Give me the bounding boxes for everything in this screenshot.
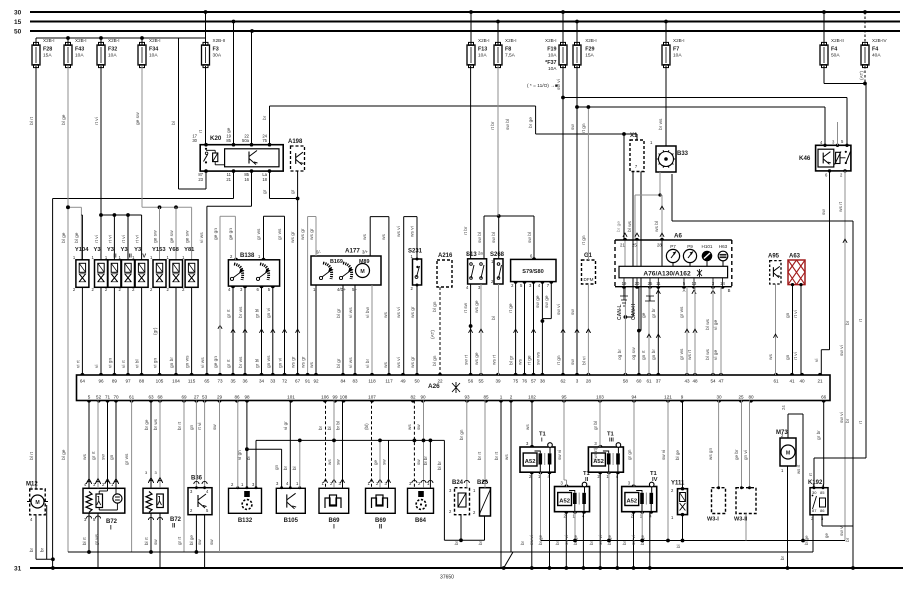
svg-text:49: 49	[400, 379, 406, 384]
svg-text:ws ge: ws ge	[475, 352, 480, 365]
svg-text:II: II	[379, 524, 383, 530]
svg-text:A198: A198	[288, 139, 303, 145]
svg-text:gn rt: gn rt	[641, 350, 647, 360]
svg-text:br: br	[780, 555, 785, 560]
svg-text:br ge: br ge	[616, 221, 622, 232]
svg-text:br: br	[40, 547, 45, 552]
svg-text:29: 29	[217, 395, 223, 400]
svg-text:rt vi: rt vi	[197, 423, 202, 430]
svg-text:H101: H101	[702, 244, 713, 249]
svg-text:20: 20	[635, 281, 640, 286]
svg-text:36: 36	[242, 379, 248, 384]
svg-text:sw: sw	[209, 539, 214, 545]
svg-text:23: 23	[198, 177, 203, 182]
svg-text:ws rt: ws rt	[687, 349, 693, 360]
svg-text:sw: sw	[822, 209, 827, 215]
svg-text:27: 27	[194, 395, 200, 400]
svg-text:F34: F34	[149, 47, 158, 53]
svg-text:68: 68	[157, 395, 163, 400]
svg-text:*F37: *F37	[545, 60, 556, 66]
svg-text:br: br	[520, 541, 525, 545]
svg-text:X2B-I: X2B-I	[505, 38, 517, 43]
svg-text:A26: A26	[428, 383, 440, 390]
svg-text:62: 62	[560, 379, 566, 384]
svg-text:ws gr: ws gr	[290, 231, 296, 243]
svg-text:66: 66	[821, 395, 827, 400]
svg-text:og br: og br	[617, 349, 623, 360]
svg-text:bl gr: bl gr	[336, 358, 342, 368]
svg-text:ws ge: ws ge	[475, 300, 480, 313]
svg-text:48: 48	[692, 379, 698, 384]
svg-text:ws: ws	[310, 362, 315, 368]
svg-text:bl ws: bl ws	[705, 318, 711, 330]
svg-text:gn: gn	[189, 424, 194, 430]
svg-text:F4: F4	[872, 47, 878, 53]
svg-text:(AT): (AT)	[859, 71, 865, 80]
svg-text:117: 117	[385, 379, 393, 384]
svg-text:ge sw: ge sw	[186, 230, 191, 243]
svg-text:rt ge: rt ge	[508, 303, 514, 313]
svg-text:60: 60	[636, 379, 642, 384]
svg-text:4/D+: 4/D+	[337, 287, 347, 292]
svg-text:10A: 10A	[478, 53, 487, 59]
svg-text:sw vi: sw vi	[839, 345, 845, 356]
svg-text:ws: ws	[363, 234, 368, 240]
svg-text:43: 43	[684, 379, 690, 384]
svg-text:K46: K46	[799, 155, 811, 162]
svg-text:50: 50	[14, 29, 22, 36]
svg-text:vi rt: vi rt	[75, 360, 81, 368]
svg-text:bl gr: bl gr	[509, 355, 515, 365]
svg-text:53: 53	[202, 395, 208, 400]
svg-text:ws gr: ws gr	[410, 306, 416, 318]
svg-text:gr rt: gr rt	[177, 536, 182, 545]
svg-text:ws vi: ws vi	[410, 226, 416, 237]
svg-text:58: 58	[623, 379, 629, 384]
svg-text:bl ge: bl ge	[61, 114, 67, 125]
svg-text:93: 93	[464, 395, 470, 400]
svg-text:25: 25	[632, 243, 637, 248]
svg-text:sw vi: sw vi	[529, 535, 534, 545]
svg-text:IV: IV	[141, 254, 147, 260]
svg-text:gn: gn	[274, 464, 279, 470]
svg-text:ws: ws	[519, 359, 524, 365]
svg-text:sw vi: sw vi	[598, 535, 603, 545]
svg-text:P9: P9	[687, 244, 693, 249]
svg-text:br: br	[622, 541, 627, 545]
svg-text:bl rt: bl rt	[82, 537, 87, 545]
svg-text:gr br: gr br	[651, 308, 657, 318]
svg-text:ge: ge	[824, 533, 829, 538]
svg-text:sw vi: sw vi	[556, 304, 562, 315]
svg-text:102: 102	[528, 395, 536, 400]
svg-text:vi ws: vi ws	[348, 357, 354, 368]
svg-text:gn vi: gn vi	[278, 358, 284, 368]
svg-text:ge sw: ge sw	[136, 112, 141, 125]
svg-text:F7: F7	[673, 47, 679, 53]
svg-text:bl: bl	[292, 466, 297, 470]
svg-text:M89: M89	[359, 259, 370, 265]
svg-text:ws: ws	[83, 454, 88, 460]
svg-text:X2B-I: X2B-I	[75, 38, 87, 43]
svg-text:ws: ws	[407, 424, 412, 430]
svg-text:13: 13	[692, 281, 697, 286]
svg-text:18: 18	[262, 177, 267, 182]
svg-text:vi gn: vi gn	[237, 450, 242, 460]
svg-text:CAN-L: CAN-L	[617, 304, 623, 320]
svg-text:br ws: br ws	[658, 118, 664, 130]
svg-text:ws: ws	[384, 312, 389, 318]
svg-text:bl ge: bl ge	[61, 449, 67, 460]
svg-text:br: br	[845, 418, 851, 423]
svg-text:br gn: br gn	[459, 429, 464, 440]
svg-text:vi bw: vi bw	[365, 307, 371, 318]
svg-text:rt sw: rt sw	[463, 302, 469, 313]
svg-text:30A: 30A	[213, 53, 222, 59]
svg-text:gr: gr	[290, 189, 296, 194]
svg-text:CAN-H: CAN-H	[631, 304, 637, 320]
svg-text:br: br	[318, 425, 323, 430]
svg-text:F8: F8	[505, 47, 511, 53]
svg-text:br: br	[262, 115, 268, 120]
svg-text:br: br	[845, 320, 851, 325]
svg-text:gr br: gr br	[816, 430, 822, 440]
svg-text:97: 97	[125, 379, 131, 384]
svg-text:sw ws: sw ws	[536, 351, 541, 365]
svg-text:gn vi: gn vi	[743, 450, 748, 460]
svg-text:11: 11	[656, 281, 661, 286]
svg-text:34: 34	[259, 379, 265, 384]
svg-text:bl: bl	[491, 316, 497, 320]
svg-text:sw bl: sw bl	[477, 232, 483, 243]
svg-text:56: 56	[468, 379, 474, 384]
svg-text:61: 61	[646, 379, 652, 384]
svg-text:64: 64	[80, 379, 86, 384]
svg-text:121: 121	[664, 395, 672, 400]
svg-text:II: II	[585, 477, 589, 483]
svg-text:vi: vi	[94, 365, 100, 368]
svg-text:S79/S80: S79/S80	[522, 269, 543, 275]
svg-text:ws gr: ws gr	[300, 228, 306, 240]
svg-text:35: 35	[230, 379, 236, 384]
svg-text:rt vi: rt vi	[135, 235, 141, 243]
svg-text:F4: F4	[831, 47, 837, 53]
svg-text:28: 28	[657, 243, 662, 248]
svg-text:28: 28	[586, 379, 592, 384]
svg-text:bl rt: bl rt	[29, 451, 35, 460]
svg-text:ge: ge	[227, 127, 232, 133]
svg-text:22: 22	[437, 379, 443, 384]
svg-text:65: 65	[204, 379, 210, 384]
svg-text:(AT): (AT)	[430, 330, 436, 339]
svg-text:br: br	[283, 465, 288, 470]
svg-text:X2B-I: X2B-I	[149, 38, 161, 43]
svg-text:A63: A63	[789, 254, 801, 260]
svg-text:gn: gn	[786, 354, 791, 360]
svg-text:DFM: DFM	[584, 277, 594, 282]
svg-text:X2B-II: X2B-II	[213, 38, 226, 43]
svg-text:rt vi: rt vi	[121, 235, 127, 243]
svg-text:br: br	[454, 541, 459, 545]
svg-text:gr rt: gr rt	[91, 451, 97, 460]
svg-text:sw: sw	[416, 424, 421, 430]
svg-text:vi bl: vi bl	[135, 359, 141, 368]
svg-text:rt vi: rt vi	[793, 352, 799, 360]
svg-text:91: 91	[305, 379, 311, 384]
svg-text:ws vi: ws vi	[396, 357, 402, 368]
svg-text:92: 92	[313, 379, 319, 384]
svg-text:F3: F3	[213, 47, 219, 53]
svg-text:B138: B138	[240, 253, 255, 259]
svg-text:sw vi: sw vi	[839, 412, 845, 423]
svg-text:gn ws: gn ws	[267, 355, 272, 368]
svg-text:P7: P7	[670, 244, 676, 249]
svg-text:bl rt: bl rt	[29, 116, 35, 125]
svg-text:(gr): (gr)	[153, 327, 159, 335]
svg-text:sw: sw	[416, 459, 421, 465]
svg-text:H63: H63	[719, 244, 728, 249]
svg-text:sw ge: sw ge	[536, 295, 541, 308]
svg-text:rt br: rt br	[490, 121, 496, 130]
svg-text:B72: B72	[106, 519, 118, 525]
svg-text:B72: B72	[170, 517, 182, 523]
svg-text:21: 21	[817, 379, 823, 384]
svg-text:B64: B64	[415, 518, 427, 524]
svg-text:87: 87	[812, 508, 817, 513]
svg-text:S268: S268	[490, 252, 505, 258]
svg-text:30: 30	[716, 395, 722, 400]
svg-text:og sw: og sw	[632, 347, 637, 360]
svg-text:ge: ge	[642, 312, 647, 318]
svg-text:br: br	[478, 541, 483, 545]
svg-text:63: 63	[148, 395, 154, 400]
svg-text:vi gn: vi gn	[107, 358, 113, 368]
svg-text:(bl): (bl)	[364, 423, 369, 430]
svg-text:sw vi: sw vi	[631, 535, 636, 545]
svg-text:72: 72	[282, 379, 288, 384]
svg-text:K20: K20	[210, 135, 222, 142]
svg-text:9: 9	[681, 395, 684, 400]
svg-text:vi ge: vi ge	[713, 350, 719, 360]
svg-text:50a: 50a	[242, 138, 250, 143]
svg-text:F28: F28	[43, 47, 52, 53]
svg-text:ws gr: ws gr	[309, 228, 315, 240]
svg-text:94: 94	[631, 395, 637, 400]
svg-text:rt gn: rt gn	[581, 235, 587, 245]
svg-text:Y3: Y3	[107, 247, 115, 253]
svg-text:40: 40	[799, 379, 805, 384]
svg-text:7,5A: 7,5A	[505, 53, 516, 59]
svg-text:ws: ws	[504, 454, 509, 460]
svg-text:B105: B105	[284, 518, 299, 524]
svg-text:II: II	[172, 524, 176, 530]
svg-text:bl ge: bl ge	[189, 535, 194, 545]
svg-text:vi ws: vi ws	[348, 307, 354, 318]
svg-text:bl ws: bl ws	[627, 220, 633, 232]
svg-text:gr ws: gr ws	[277, 228, 283, 240]
svg-text:71: 71	[105, 395, 111, 400]
svg-text:br bl: br bl	[336, 421, 341, 430]
svg-text:85: 85	[820, 490, 825, 495]
svg-text:gr bl: gr bl	[255, 359, 261, 368]
svg-text:73: 73	[217, 379, 223, 384]
svg-text:38: 38	[540, 379, 546, 384]
svg-text:B33: B33	[677, 151, 689, 157]
svg-text:gr gn: gr gn	[627, 449, 632, 460]
svg-text:10A: 10A	[75, 53, 84, 59]
svg-text:75: 75	[513, 379, 519, 384]
svg-text:98: 98	[244, 395, 250, 400]
svg-text:61: 61	[773, 379, 779, 384]
svg-text:IV: IV	[652, 477, 658, 483]
svg-text:bl: bl	[171, 121, 177, 125]
svg-text:gn: gn	[786, 312, 791, 318]
svg-text:90: 90	[420, 395, 426, 400]
svg-text:31: 31	[14, 566, 22, 573]
svg-text:A76/A130/A162: A76/A130/A162	[643, 270, 691, 277]
svg-text:69: 69	[181, 395, 187, 400]
svg-text:br rt: br rt	[177, 421, 182, 430]
svg-text:sw: sw	[212, 424, 217, 430]
svg-text:M: M	[360, 269, 364, 275]
svg-text:84: 84	[340, 379, 346, 384]
svg-text:W3-II: W3-II	[734, 517, 748, 523]
svg-text:rt ge: rt ge	[527, 355, 533, 365]
svg-text:br rt: br rt	[477, 451, 482, 460]
svg-text:vi gr: vi gr	[283, 421, 288, 430]
svg-text:sw vi: sw vi	[564, 535, 569, 545]
svg-text:X1: X1	[630, 133, 638, 139]
svg-text:vi ws: vi ws	[200, 357, 206, 368]
svg-text:ws gr: ws gr	[291, 356, 297, 368]
svg-text:41: 41	[789, 379, 795, 384]
svg-text:ws rt: ws rt	[838, 201, 844, 212]
svg-text:sw: sw	[102, 454, 107, 460]
svg-text:89: 89	[112, 379, 118, 384]
svg-text:ws gn: ws gn	[708, 448, 713, 460]
svg-text:br: br	[845, 537, 851, 542]
svg-text:ws: ws	[382, 234, 387, 240]
svg-text:A: A	[683, 288, 686, 293]
svg-text:30: 30	[192, 138, 197, 143]
svg-text:B69: B69	[375, 518, 387, 524]
svg-text:50: 50	[414, 379, 420, 384]
svg-text:54: 54	[710, 379, 716, 384]
svg-text:rt vi: rt vi	[94, 117, 100, 125]
svg-text:vi gn: vi gn	[153, 358, 159, 368]
svg-text:gn vi: gn vi	[266, 308, 272, 318]
svg-text:33: 33	[270, 379, 276, 384]
svg-text:X2B-IV: X2B-IV	[872, 38, 887, 43]
svg-text:M: M	[786, 451, 790, 457]
svg-text:75: 75	[262, 138, 267, 143]
svg-text:bl gr: bl gr	[336, 308, 342, 318]
svg-text:X2B-I: X2B-I	[585, 38, 597, 43]
svg-text:B169: B169	[330, 259, 343, 265]
svg-text:ws bl: ws bl	[654, 221, 660, 232]
svg-text:K192: K192	[808, 480, 823, 486]
svg-text:57: 57	[531, 379, 537, 384]
svg-text:ge sw: ge sw	[154, 230, 159, 243]
svg-text:rt gn: rt gn	[581, 123, 587, 133]
svg-text:ws vi: ws vi	[396, 307, 402, 318]
svg-text:bl: bl	[327, 426, 332, 430]
svg-text:A95: A95	[768, 254, 780, 260]
svg-text:bl rt: bl rt	[144, 537, 149, 545]
svg-text:gn br: gn br	[651, 349, 657, 360]
svg-text:118: 118	[368, 379, 376, 384]
svg-text:37650: 37650	[440, 575, 454, 581]
svg-text:ge sw: ge sw	[170, 230, 175, 243]
svg-text:19: 19	[622, 281, 627, 286]
svg-text:2a: 2a	[478, 251, 483, 256]
svg-text:80: 80	[748, 395, 754, 400]
svg-text:101: 101	[287, 395, 295, 400]
svg-text:99: 99	[332, 395, 338, 400]
svg-text:sw vi: sw vi	[661, 450, 666, 460]
svg-text:vi ws: vi ws	[199, 232, 205, 243]
svg-text:F13: F13	[478, 47, 487, 53]
svg-text:39: 39	[495, 379, 501, 384]
svg-text:gn: gn	[110, 454, 115, 460]
svg-text:br ge: br ge	[528, 117, 534, 128]
svg-text:F19: F19	[547, 47, 556, 53]
svg-text:br ws: br ws	[238, 306, 244, 318]
svg-text:X2B-I: X2B-I	[545, 38, 557, 43]
svg-text:10A: 10A	[149, 53, 158, 59]
svg-text:Y153: Y153	[152, 247, 166, 253]
svg-text:bl gn: bl gn	[432, 355, 438, 366]
svg-text:sw: sw	[571, 124, 576, 130]
svg-text:ge: ge	[373, 459, 378, 465]
svg-text:bl: bl	[246, 456, 251, 460]
svg-text:115: 115	[188, 379, 196, 384]
svg-text:5: 5	[88, 395, 91, 400]
svg-text:ge gn: ge gn	[214, 356, 219, 368]
svg-text:bl br: bl br	[437, 461, 442, 470]
svg-text:gr rt: gr rt	[226, 309, 232, 318]
svg-text:A216: A216	[438, 253, 453, 259]
svg-text:bl ge: bl ge	[675, 450, 680, 460]
svg-text:sw: sw	[382, 459, 387, 465]
svg-text:6/-: 6/-	[316, 250, 321, 255]
svg-text:rt vi: rt vi	[793, 310, 799, 318]
svg-text:A52: A52	[559, 498, 570, 504]
svg-text:X2B-II: X2B-II	[831, 38, 844, 43]
svg-text:ws gr: ws gr	[301, 356, 307, 368]
svg-text:82: 82	[410, 395, 416, 400]
svg-text:br ge: br ge	[144, 419, 149, 430]
svg-text:ge gn: ge gn	[214, 228, 219, 240]
svg-text:sw bl: sw bl	[527, 232, 533, 243]
svg-text:2: 2	[510, 395, 513, 400]
svg-text:sw: sw	[153, 539, 158, 545]
svg-text:gr ws: gr ws	[256, 228, 262, 240]
svg-text:sw vi: sw vi	[556, 79, 562, 90]
svg-text:vi br: vi br	[365, 359, 371, 368]
svg-text:vi ge: vi ge	[713, 320, 719, 330]
svg-text:30: 30	[812, 490, 817, 495]
svg-text:(ws rt): (ws rt)	[593, 447, 598, 460]
svg-text:sw: sw	[336, 459, 341, 465]
svg-text:gr ws: gr ws	[679, 348, 685, 360]
svg-text:40A: 40A	[872, 53, 881, 59]
svg-text:ws vi: ws vi	[396, 226, 402, 237]
svg-text:ws: ws	[769, 354, 774, 360]
svg-text:85: 85	[483, 395, 489, 400]
svg-text:107: 107	[368, 395, 376, 400]
svg-text:III: III	[609, 438, 614, 444]
